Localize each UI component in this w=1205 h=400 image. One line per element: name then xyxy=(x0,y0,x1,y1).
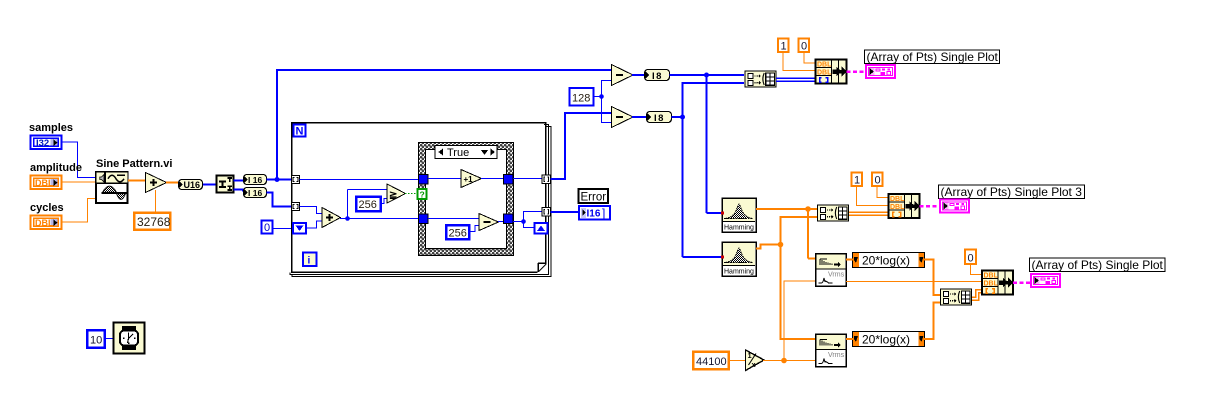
control samples (I32) xyxy=(29,122,73,150)
constant 32768 xyxy=(134,213,171,230)
function Build Array 3 xyxy=(941,289,972,305)
function 20*log(x) 2 xyxy=(853,332,925,347)
case tunnel right-top xyxy=(504,175,514,185)
tunnel loop-right 2 xyxy=(542,208,551,217)
wire loop out 2 -> Error indicator xyxy=(551,211,580,213)
tunnel loop-left 1 (auto-index) xyxy=(292,176,300,184)
wire 1/x -> Vrms2 dt / up to Vrms1 dt (junction) xyxy=(763,281,815,363)
wire bundle2 -> graph2 (dashed magenta) xyxy=(920,205,941,208)
label (Array of Pts) Single Plot (bottom) xyxy=(1030,258,1166,272)
svg-text:I8: I8 xyxy=(654,113,665,124)
wire 256 -> subtract256 xyxy=(469,226,480,232)
wire I8a -> build array 1 / down to Hamming1 (junction) xyxy=(670,73,745,214)
case tunnel left-bottom xyxy=(419,214,429,224)
svg-text:DBL: DBL xyxy=(35,218,54,228)
svg-text:Sine Pattern.vi: Sine Pattern.vi xyxy=(96,158,172,170)
control cycles (DBL) xyxy=(30,202,64,230)
wire boolean -> case selector ? xyxy=(405,193,419,195)
wire 0 -> bundle2 row1 xyxy=(877,187,888,198)
coercion bubble I16 lower xyxy=(244,188,267,199)
subVI Sine Pattern.vi xyxy=(96,158,172,203)
operator subtract (case) xyxy=(479,214,499,231)
constant 1 (plot 1) xyxy=(778,39,789,53)
wire 128 -> both subtracts (junction) xyxy=(594,81,613,123)
constant 1 (plot 3) xyxy=(852,173,863,187)
wire split hi -> I16a xyxy=(234,180,244,182)
operator increment +1 xyxy=(461,170,482,188)
svg-text:DBL: DBL xyxy=(890,196,905,203)
svg-text:256: 256 xyxy=(359,199,377,211)
tunnel loop-right 1 xyxy=(542,175,551,184)
wire tunnel1 -> case tunnel LT xyxy=(300,179,420,181)
indicator graph 1 xyxy=(865,64,896,79)
svg-text:?: ? xyxy=(420,190,425,200)
wire I8b -> build array 1 / down to Hamming2 (junction) xyxy=(672,83,745,257)
svg-text:I 16: I 16 xyxy=(248,175,262,185)
wire tunnel2 -> add xyxy=(300,207,323,214)
svg-text:(Array of Pts) Single Plot 3: (Array of Pts) Single Plot 3 xyxy=(941,185,1083,199)
svg-text:N: N xyxy=(296,126,304,138)
wire Vrms1 df -> bundle3 row2 xyxy=(846,281,982,283)
coercion bubble I8 upper xyxy=(645,70,670,83)
indicator graph 3 xyxy=(1030,273,1061,288)
constant 0 (plot 1) xyxy=(799,39,810,53)
svg-text:amplitude: amplitude xyxy=(30,162,82,174)
case selector label True xyxy=(435,146,497,160)
wire I16b -> loop tunnel 2 xyxy=(267,193,293,207)
svg-text:1: 1 xyxy=(854,175,860,187)
subVI spectrum Vrms 1 xyxy=(816,254,847,287)
svg-text:Hamming: Hamming xyxy=(724,225,754,232)
wire shift register -> add xyxy=(306,221,322,228)
svg-text:Vrms: Vrms xyxy=(828,352,845,359)
case selector terminal ? xyxy=(418,189,427,200)
svg-text:Vrms: Vrms xyxy=(828,272,845,279)
wire 0 -> shift register xyxy=(273,228,292,230)
case tunnel left-top xyxy=(419,175,429,185)
svg-text:I16: I16 xyxy=(587,209,601,220)
wire case LT -> increment xyxy=(428,178,461,180)
function Bundle 1 xyxy=(816,60,847,84)
label (Array of Pts) Single Plot 3 xyxy=(939,185,1085,199)
wire build array 1 -> bundle 1 (2D) xyxy=(776,78,815,81)
wire amplitude -> SinePattern xyxy=(62,181,96,183)
svg-text:0: 0 xyxy=(875,175,881,187)
loop count terminal N xyxy=(294,125,306,138)
loop iteration terminal i xyxy=(303,253,317,267)
svg-text:I32: I32 xyxy=(36,138,49,149)
svg-text:i: i xyxy=(308,256,311,267)
wire build array 3 -> bundle 3 (2D) xyxy=(972,290,982,301)
wire I16a -> loop tunnel 1 (with branch up to subtract1) xyxy=(267,69,612,182)
indicator graph 2 xyxy=(939,199,970,214)
svg-text:1: 1 xyxy=(748,351,752,360)
wire sine array -> multiply xyxy=(128,180,145,182)
svg-text:Hamming: Hamming xyxy=(724,269,754,276)
svg-text:≧: ≧ xyxy=(389,190,397,201)
function Split Number xyxy=(217,176,234,193)
svg-text:0: 0 xyxy=(968,253,974,265)
label (Array of Pts) Single Plot xyxy=(865,50,1000,64)
label Error xyxy=(579,189,609,203)
svg-text:U16: U16 xyxy=(184,180,201,190)
constant 256 (case) xyxy=(446,225,469,240)
wire subtract2 -> I8b xyxy=(632,116,646,118)
wire 1 -> bundle1 row2 xyxy=(783,53,815,71)
svg-text:DBL: DBL xyxy=(984,273,999,280)
wire 32768 -> scale xyxy=(155,190,157,212)
svg-text:DBL: DBL xyxy=(984,281,999,288)
svg-text:I8: I8 xyxy=(652,71,663,82)
constant 44100 xyxy=(693,352,729,370)
wire 256 -> greater-equal xyxy=(381,199,389,204)
wire samples -> SinePattern xyxy=(62,142,96,178)
svg-text:0: 0 xyxy=(264,222,270,234)
wire 0 -> bundle1 row1 xyxy=(804,53,815,64)
wire 44100 -> reciprocal xyxy=(729,360,746,362)
wire Hamming1 -> build array 2 / down to Vrms1 (junction) xyxy=(756,206,817,258)
constant 0 (shift register init) xyxy=(262,221,273,235)
svg-text:1: 1 xyxy=(781,41,787,53)
svg-text:20*log(x): 20*log(x) xyxy=(862,254,910,268)
wire cycles -> SinePattern xyxy=(62,199,96,223)
wire case LB -> subtract256 xyxy=(428,218,479,220)
shift register left xyxy=(293,223,306,234)
svg-text:(Array of Pts) Single Plot: (Array of Pts) Single Plot xyxy=(1032,258,1164,272)
svg-text:(Array of Pts) Single Plot: (Array of Pts) Single Plot xyxy=(867,50,999,64)
wire scale -> ToU16 xyxy=(166,182,178,184)
constant 128 xyxy=(570,88,594,106)
svg-text:DBL: DBL xyxy=(35,178,54,188)
function Build Array 2 xyxy=(818,205,849,221)
svg-text:DBL: DBL xyxy=(817,62,832,69)
svg-text:]: ] xyxy=(602,206,605,220)
subVI Hamming window 2 xyxy=(721,242,756,276)
wire split lo -> I16b xyxy=(234,190,244,192)
svg-text:32768: 32768 xyxy=(137,215,171,229)
svg-text:cycles: cycles xyxy=(30,202,64,214)
wire Hamming2 -> build array 2 / down to Vrms2 (junction) xyxy=(756,217,817,339)
svg-text:44100: 44100 xyxy=(696,356,727,368)
svg-text:10: 10 xyxy=(90,335,102,347)
function Bundle 2 xyxy=(889,194,920,218)
wire U16 -> split xyxy=(203,184,216,186)
subVI Hamming window 1 xyxy=(721,198,756,232)
wire bundle1 -> graph1 (dashed magenta) xyxy=(847,70,867,73)
wire 20log1 -> build array 3 xyxy=(924,260,940,296)
function 20*log(x) 1 xyxy=(853,253,925,268)
function Wait ms (clock) xyxy=(114,323,145,354)
constant 0 (plot 2) xyxy=(965,250,976,265)
wire build array 2 -> bundle 2 (2D) xyxy=(849,212,888,215)
wire add out -> case tunnel LB (junction) xyxy=(340,190,419,221)
case structure border (hatched) xyxy=(419,143,514,256)
wire increment -> case tunnel RT xyxy=(481,178,504,180)
svg-text:DBL: DBL xyxy=(890,204,905,211)
wire 20log2 -> build array 3 xyxy=(924,303,940,340)
svg-text:samples: samples xyxy=(29,122,73,134)
svg-text:20*log(x): 20*log(x) xyxy=(862,333,910,347)
operator add (loop) xyxy=(322,208,341,228)
function Bundle 3 xyxy=(982,271,1013,295)
wire subtract1 -> I8a xyxy=(632,74,644,76)
constant 256 (threshold) xyxy=(356,197,381,212)
svg-text:+1: +1 xyxy=(464,175,474,184)
constant 10 (wait) xyxy=(87,330,105,348)
conversion bubble U16 xyxy=(179,180,203,191)
svg-text:Error: Error xyxy=(581,191,607,203)
wire bundle3 -> graph3 (dashed magenta) xyxy=(1013,281,1031,284)
constant 0 (plot 3) xyxy=(872,173,883,187)
wire case RB -> loop tunnel / shift register (junction) xyxy=(513,212,542,228)
subVI spectrum Vrms 2 xyxy=(816,334,847,367)
wire Vrms1 -> 20log1 xyxy=(846,259,853,261)
operator reciprocal 1/x xyxy=(746,350,765,371)
wire loop out 1 -> subtract2 (up and right) xyxy=(551,113,612,179)
wire 1 -> bundle2 row2 xyxy=(857,187,889,206)
coercion bubble I16 upper xyxy=(244,175,267,186)
tunnel loop-left 2 (auto-index) xyxy=(292,203,300,211)
function Build Array 1 xyxy=(745,71,776,87)
wire Vrms2 -> 20log2 xyxy=(846,338,853,340)
operator subtract 2 (lower) xyxy=(612,107,634,128)
operator scale (+) xyxy=(146,173,167,193)
svg-text:I 16: I 16 xyxy=(248,188,262,198)
svg-text:0: 0 xyxy=(801,41,807,53)
wire 10 -> wait xyxy=(105,338,114,340)
svg-text:256: 256 xyxy=(449,228,467,240)
case tunnel right-bottom xyxy=(504,214,514,224)
svg-text:True: True xyxy=(447,147,469,159)
svg-text:DBL: DBL xyxy=(817,70,832,77)
wire 0 -> bundle3 row1 xyxy=(971,265,982,275)
wire case RT -> loop tunnel right 1 xyxy=(513,178,542,180)
svg-text:128: 128 xyxy=(572,93,590,105)
shift register right xyxy=(535,223,548,234)
operator subtract 1 (top) xyxy=(612,65,634,86)
for loop frame (stacked) xyxy=(290,123,551,277)
comparator greater-or-equal xyxy=(387,184,406,203)
wire subtract -> case tunnel RB xyxy=(498,221,504,223)
control amplitude (DBL) xyxy=(30,162,82,190)
indicator Error (I16 array) xyxy=(579,206,610,220)
coercion bubble I8 lower xyxy=(647,112,672,125)
